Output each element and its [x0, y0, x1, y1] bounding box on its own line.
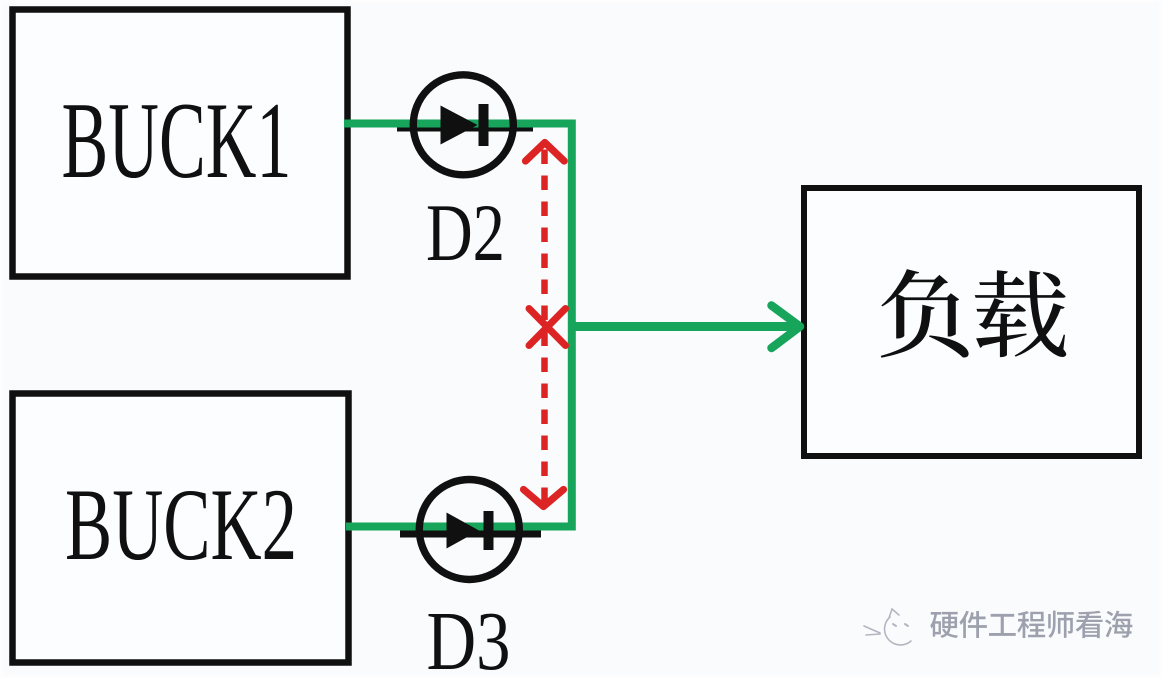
svg-text:BUCK1: BUCK1 [62, 80, 292, 201]
svg-text:D2: D2 [426, 187, 505, 278]
svg-text:BUCK2: BUCK2 [65, 468, 297, 582]
svg-text:D3: D3 [427, 595, 511, 678]
